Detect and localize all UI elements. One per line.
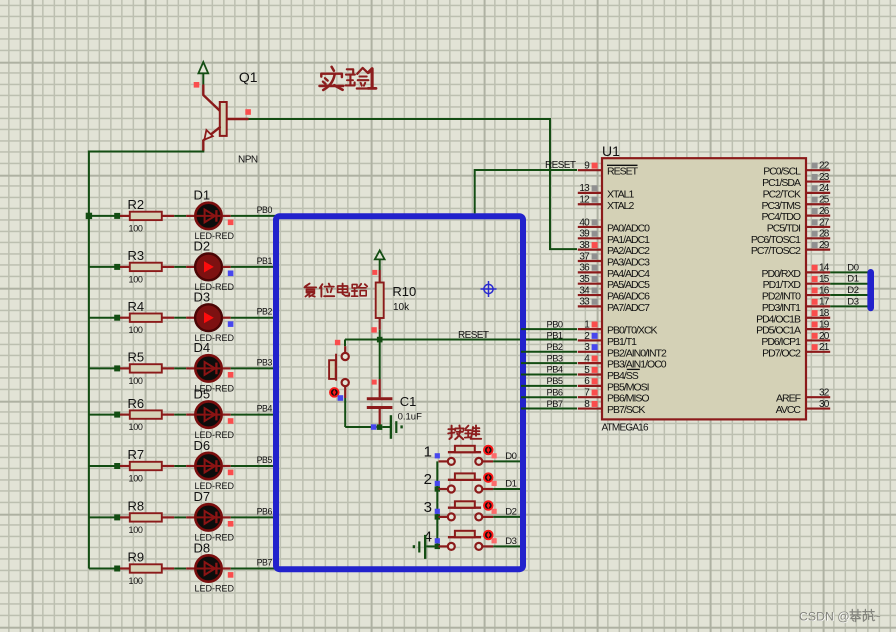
node junction row 1 (86, 213, 92, 219)
svg-text:25: 25 (819, 195, 830, 206)
wire R10 bottom to RESET node (379, 330, 381, 340)
pin 33 (PA7/ADC7) left stub (578, 305, 602, 307)
svg-text:PB1/T1: PB1/T1 (607, 336, 637, 348)
pin 22 (PC0/SCL) right stub (806, 169, 830, 171)
wire RESET net to pin 2 row (345, 339, 577, 341)
pin 21 (PD7/OC2) right stub (806, 351, 830, 353)
component-origin square Q1 base (245, 109, 251, 115)
pin 7 (PB6/MISO) left stub (578, 396, 602, 398)
origin square R10 bottom (371, 327, 376, 332)
svg-text:21: 21 (819, 342, 830, 353)
svg-text:PC3/TMS: PC3/TMS (761, 200, 801, 212)
bus D0-D3 (blue) (867, 272, 874, 308)
LED D4 (LED-RED) (186, 367, 194, 369)
svg-text:14: 14 (819, 263, 830, 274)
wire PB2 from box to pin 3 (521, 351, 577, 353)
LED D2 (LED-RED) lit (186, 266, 194, 268)
wire row 2: resistor to LED (174, 266, 186, 268)
wire row 2: LED to PB1 label (231, 266, 277, 268)
resistor R9 value 100 (120, 567, 130, 569)
wire: emitter rail from Q1 to left bus (202, 150, 204, 152)
svg-text:D5: D5 (194, 386, 211, 401)
pin 39 (PA1/ADC1) left stub (578, 237, 602, 239)
svg-text:D1: D1 (505, 479, 516, 490)
wire row 6: LED to PB5 label (231, 465, 277, 467)
svg-text:PB6: PB6 (547, 387, 563, 397)
svg-text:100: 100 (129, 576, 143, 586)
svg-text:CSDN @: CSDN @ (799, 609, 850, 623)
capacitor C1 0.1uF (379, 342, 381, 380)
wire PB4 from box to pin 5 (521, 374, 577, 376)
svg-text:PB6: PB6 (257, 506, 273, 516)
svg-text:D8: D8 (194, 540, 211, 555)
svg-text:LED-RED: LED-RED (195, 584, 235, 594)
LED D3 (LED-RED) lit (186, 317, 194, 319)
pin 29 (PC7/TOSC2) right stub (806, 249, 830, 251)
svg-text:100: 100 (129, 376, 143, 386)
pin-state square D4 (228, 372, 234, 378)
wire row 8: LED to PB7 label (231, 568, 277, 570)
LED D5 (LED-RED) (186, 414, 194, 416)
pin 25 (PC3/TMS) right stub (806, 203, 830, 205)
wire row 8: bus to resistor (89, 568, 117, 570)
pin 17 (PD3/INT1) right stub (806, 305, 830, 307)
node C1/ground junction (377, 424, 383, 430)
component-origin square Q1 collector (194, 82, 200, 88)
wire D0 from pin 14 to bus (830, 271, 868, 273)
wire row 8: resistor to LED (174, 568, 186, 570)
svg-text:D1: D1 (847, 274, 858, 285)
wire D2 from pin 16 to bus (830, 294, 868, 296)
ground (reset circuit) (382, 426, 390, 428)
svg-text:3: 3 (424, 499, 432, 516)
pin-state square D3 (228, 321, 234, 327)
state square (blue) below knob (338, 395, 344, 401)
button 4 knob (484, 531, 493, 540)
svg-text:PB4: PB4 (547, 365, 563, 375)
svg-text:PB1: PB1 (257, 256, 273, 266)
pin 2 (PB1/T1) left stub (578, 339, 602, 341)
push button 4 (435, 544, 440, 549)
power terminal (above R10) (375, 250, 385, 259)
svg-text:D2: D2 (194, 239, 211, 254)
resistor R5 value 100 (120, 367, 130, 369)
button 3 knob (484, 501, 493, 510)
wire row 2: bus to resistor (89, 266, 117, 268)
svg-text:PD0/RXD: PD0/RXD (761, 268, 801, 280)
svg-text:PC1/SDA: PC1/SDA (762, 177, 801, 189)
svg-text:D1: D1 (194, 188, 211, 203)
svg-text:RESET: RESET (607, 166, 639, 178)
svg-text:PA6/ADC6: PA6/ADC6 (607, 291, 650, 303)
svg-text:PA0/ADC0: PA0/ADC0 (607, 222, 650, 234)
wire row 4: bus to resistor (89, 367, 117, 369)
svg-text:30: 30 (819, 399, 830, 410)
svg-text:D7: D7 (194, 489, 211, 504)
svg-text:PA1/ADC1: PA1/ADC1 (607, 234, 650, 246)
wire D3 from pin 17 to bus (830, 305, 868, 307)
svg-text:PD3/INT1: PD3/INT1 (762, 302, 801, 314)
resistor R2 value 100 (120, 215, 130, 217)
wire row 7: resistor to LED (174, 516, 186, 518)
svg-text:16: 16 (819, 285, 830, 296)
wire row 7: bus to resistor (89, 516, 117, 518)
svg-text:23: 23 (819, 172, 830, 183)
resistor R8 value 100 (120, 516, 130, 518)
svg-text:PB7: PB7 (547, 399, 563, 409)
svg-text:R5: R5 (128, 350, 145, 365)
svg-text:PA4/ADC4: PA4/ADC4 (607, 268, 650, 280)
svg-text:100: 100 (129, 223, 143, 233)
pin 20 (PD6/ICP1) right stub (806, 339, 830, 341)
pin 37 (PA3/ADC3) left stub (578, 260, 602, 262)
svg-text:PD6/ICP1: PD6/ICP1 (761, 336, 801, 348)
svg-text:35: 35 (579, 274, 590, 285)
pin 18 (PD4/OC1B) right stub (806, 317, 830, 319)
svg-text:PB2: PB2 (257, 307, 273, 317)
svg-text:22: 22 (819, 161, 830, 172)
svg-text:Q1: Q1 (239, 69, 258, 85)
svg-text:PC6/TOSC1: PC6/TOSC1 (751, 234, 801, 246)
pin-state square D2 (228, 271, 234, 277)
svg-text:20: 20 (819, 331, 830, 342)
push button (reset, rotated) (344, 340, 346, 347)
title text 实验1 (red) (332, 67, 334, 71)
svg-text:10k: 10k (393, 302, 410, 313)
pin 19 (PD5/OC1A) right stub (806, 328, 830, 330)
pin 9 (RESET) left stub (578, 169, 602, 171)
svg-text:12: 12 (579, 195, 590, 206)
svg-text:D3: D3 (194, 290, 211, 305)
svg-text:33: 33 (579, 297, 590, 308)
push button 3 (435, 514, 440, 519)
svg-text:40: 40 (579, 217, 590, 228)
svg-text:R6: R6 (128, 396, 145, 411)
wire button 4 to net D3 (493, 545, 520, 547)
pin 35 (PA5/ADC5) left stub (578, 283, 602, 285)
LED D7 (LED-RED) (186, 516, 194, 518)
svg-text:1: 1 (424, 444, 432, 461)
wire row 7: LED to PB6 label (231, 516, 277, 518)
svg-text:PB2/AIN0/INT2: PB2/AIN0/INT2 (607, 347, 667, 359)
svg-text:13: 13 (579, 183, 590, 194)
wire row 1: resistor to LED (174, 215, 186, 217)
pin 26 (PC4/TDO) right stub (806, 215, 830, 217)
svg-text:100: 100 (129, 274, 143, 284)
svg-text:R3: R3 (128, 248, 145, 263)
svg-text:PB3: PB3 (257, 357, 273, 367)
pin 14 (PD0/RXD) right stub (806, 271, 830, 273)
pin 13 (XTAL1) left stub (578, 192, 602, 194)
svg-text:D0: D0 (847, 262, 858, 273)
pin-state square D8 (228, 572, 234, 578)
pin-state square D5 (228, 418, 234, 424)
wire PB3 from box to pin 4 (521, 362, 577, 364)
svg-text:PA2/ADC2: PA2/ADC2 (607, 245, 650, 257)
svg-text:PB5: PB5 (547, 376, 563, 386)
pin 24 (PC2/TCK) right stub (806, 192, 830, 194)
wire row 5: resistor to LED (174, 414, 186, 416)
svg-text:PB5/MOSI: PB5/MOSI (607, 381, 649, 393)
svg-text:PB3: PB3 (547, 353, 563, 363)
wire row 6: bus to resistor (89, 465, 117, 467)
svg-text:PB0/T0/XCK: PB0/T0/XCK (607, 325, 658, 337)
svg-text:PA3/ADC3: PA3/ADC3 (607, 257, 650, 269)
svg-text:D3: D3 (847, 296, 858, 307)
svg-text:PC0/SCL: PC0/SCL (763, 166, 801, 178)
svg-text:PA5/ADC5: PA5/ADC5 (607, 279, 650, 291)
svg-text:PD4/OC1B: PD4/OC1B (756, 313, 801, 325)
svg-text:NPN: NPN (238, 155, 258, 166)
svg-text:17: 17 (819, 297, 830, 308)
pin 28 (PC6/TOSC1) right stub (806, 237, 830, 239)
wire row 3: bus to resistor (89, 317, 117, 319)
wire row 1: bus to resistor (89, 215, 117, 217)
wire row 4: resistor to LED (174, 367, 186, 369)
svg-text:D3: D3 (505, 536, 516, 547)
resistor R7 value 100 (120, 465, 130, 467)
pin-state square D7 (228, 521, 234, 527)
svg-text:PA7/ADC7: PA7/ADC7 (607, 302, 650, 314)
LED D8 (LED-RED) (186, 567, 194, 569)
svg-text:PD2/INT0: PD2/INT0 (762, 291, 801, 303)
pin 4 (PB3/AIN1/OC0) left stub (578, 362, 602, 364)
svg-text:100: 100 (129, 474, 143, 484)
svg-text:C1: C1 (400, 394, 417, 409)
wire PB7 from box to pin 8 (521, 408, 577, 410)
svg-text:PB1: PB1 (547, 331, 563, 341)
LED D6 (LED-RED) (186, 465, 194, 467)
pin 8 (PB7/SCK) left stub (578, 407, 602, 409)
wire button 1 to net D0 (493, 460, 520, 462)
svg-text:PD7/OC2: PD7/OC2 (762, 347, 801, 359)
svg-text:PB4/SS: PB4/SS (607, 370, 639, 382)
svg-text:32: 32 (819, 388, 830, 399)
wire row 5: LED to PB4 label (231, 414, 277, 416)
wire: Q1 base to pin 38 (PA2/ADC2) (249, 119, 578, 249)
svg-text:D4: D4 (194, 340, 211, 355)
origin crosshair marker (484, 284, 493, 293)
resistor R4 value 100 (120, 317, 130, 319)
button actuate knob (red) (330, 388, 339, 397)
pin 27 (PC5/TDI) right stub (806, 226, 830, 228)
wire button 3 to net D2 (493, 516, 520, 518)
svg-text:37: 37 (579, 251, 590, 262)
svg-text:~: ~ (874, 609, 881, 623)
wire button to ground rail (344, 398, 346, 427)
origin square R10 top (372, 270, 377, 275)
svg-text:XTAL1: XTAL1 (607, 188, 634, 200)
resistor R10 value 10k (vertical) (379, 270, 381, 283)
svg-text:PC2/TCK: PC2/TCK (763, 188, 801, 200)
power terminal (top, above Q1) (198, 62, 208, 73)
svg-text:PC7/TOSC2: PC7/TOSC2 (751, 245, 801, 257)
pin-state square D6 (228, 470, 234, 476)
pin 34 (PA6/ADC6) left stub (578, 294, 602, 296)
svg-text:29: 29 (819, 240, 830, 251)
wire PB5 from box to pin 6 (521, 385, 577, 387)
pin 36 (PA4/ADC4) left stub (578, 271, 602, 273)
svg-text:15: 15 (819, 274, 830, 285)
pin 16 (PD2/INT0) right stub (806, 294, 830, 296)
svg-text:AREF: AREF (776, 393, 801, 405)
svg-text:2: 2 (424, 471, 432, 488)
state square (blue) at C1 bottom (371, 424, 377, 430)
wire row 3: resistor to LED (174, 317, 186, 319)
svg-text:PB5: PB5 (257, 455, 273, 465)
pin 23 (PC1/SDA) right stub (806, 180, 830, 182)
svg-text:PB7: PB7 (257, 558, 273, 568)
svg-text:PC4/TDO: PC4/TDO (761, 211, 800, 223)
wire PB6 from box to pin 7 (521, 396, 577, 398)
resistor R6 value 100 (120, 414, 130, 416)
wire row 3: LED to PB2 label (231, 317, 277, 319)
svg-text:U1: U1 (602, 143, 620, 159)
svg-text:38: 38 (579, 240, 590, 251)
wire row 1: LED to PB0 label (231, 215, 277, 217)
svg-text:18: 18 (819, 308, 830, 319)
svg-text:RESET: RESET (458, 330, 489, 341)
svg-text:PC5/TDI: PC5/TDI (767, 222, 800, 234)
pin 15 (PD1/TXD) right stub (806, 283, 830, 285)
ground (buttons) (427, 545, 435, 547)
svg-text:27: 27 (819, 217, 830, 228)
LED D1 (LED-RED) (186, 215, 194, 217)
svg-text:26: 26 (819, 206, 830, 217)
svg-text:PB2: PB2 (547, 342, 563, 352)
wire row 4: LED to PB3 label (231, 367, 277, 369)
svg-text:PB0: PB0 (257, 205, 273, 215)
transistor Q1 (NPN) (203, 85, 220, 110)
svg-text:D2: D2 (505, 507, 516, 518)
pin 30 (AVCC) right stub (806, 407, 830, 409)
svg-text:PB0: PB0 (547, 319, 563, 329)
button 1 knob (484, 446, 493, 455)
svg-text:100: 100 (129, 422, 143, 432)
svg-text:D0: D0 (505, 451, 516, 462)
pin 40 (PA0/ADC0) left stub (578, 226, 602, 228)
push button 2 (435, 486, 440, 491)
svg-text:AVCC: AVCC (776, 404, 802, 416)
pin 3 (PB2/AIN0/INT2) left stub (578, 351, 602, 353)
wire row 5: bus to resistor (89, 414, 117, 416)
pin 12 (XTAL2) left stub (578, 203, 602, 205)
svg-text:R2: R2 (128, 197, 145, 212)
svg-text:PD1/TXD: PD1/TXD (763, 279, 802, 291)
svg-text:36: 36 (579, 263, 590, 274)
pin 6 (PB5/MOSI) left stub (578, 385, 602, 387)
wire D1 from pin 15 to bus (830, 283, 868, 285)
svg-text:XTAL2: XTAL2 (607, 200, 634, 212)
svg-text:R9: R9 (128, 550, 145, 565)
pin 32 (AREF) right stub (806, 396, 830, 398)
svg-text:100: 100 (129, 525, 143, 535)
pin 38 (PA2/ADC2) left stub (578, 249, 602, 251)
svg-text:PD5/OC1A: PD5/OC1A (756, 325, 801, 337)
svg-text:19: 19 (819, 319, 830, 330)
svg-text:PB4: PB4 (257, 404, 273, 414)
label 按键 (red) (449, 426, 451, 439)
wire button 2 to net D1 (493, 488, 520, 490)
svg-text:100: 100 (129, 325, 143, 335)
svg-text:24: 24 (819, 183, 830, 194)
pin-state square D1 (228, 220, 234, 226)
svg-text:39: 39 (579, 229, 590, 240)
svg-text:PB6/MISO: PB6/MISO (607, 393, 649, 405)
blue box (reset-circuit frame) (276, 216, 523, 569)
wire row 6: resistor to LED (174, 465, 186, 467)
svg-text:D2: D2 (847, 285, 858, 296)
wire: left vertical bus (88, 151, 90, 569)
svg-text:ATMEGA16: ATMEGA16 (602, 423, 649, 434)
push button 1 (435, 453, 440, 458)
svg-text:R10: R10 (392, 284, 416, 299)
label 复位电路 (red) (305, 284, 309, 287)
pin 1 (PB0/T0/XCK) left stub (578, 328, 602, 330)
svg-text:0.1uF: 0.1uF (398, 411, 422, 422)
svg-text:D6: D6 (194, 438, 211, 453)
svg-text:R4: R4 (128, 299, 145, 314)
svg-text:R8: R8 (128, 499, 145, 514)
pin 5 (PB4/SS) left stub (578, 373, 602, 375)
op: U1 ATMEGA16 body (602, 158, 806, 419)
svg-text:34: 34 (579, 285, 590, 296)
button 2 knob (484, 473, 493, 482)
svg-text:28: 28 (819, 229, 830, 240)
svg-text:RESET: RESET (545, 160, 576, 171)
wire PB0 from box to pin 1 (521, 328, 577, 330)
svg-text:PB7/SCK: PB7/SCK (607, 404, 645, 416)
node RESET junction (377, 337, 383, 343)
resistor R3 value 100 (120, 266, 130, 268)
wire: pin 9 RESET to blue box (475, 170, 577, 213)
wire: button bus vertical (436, 461, 438, 546)
svg-text:R7: R7 (128, 447, 145, 462)
